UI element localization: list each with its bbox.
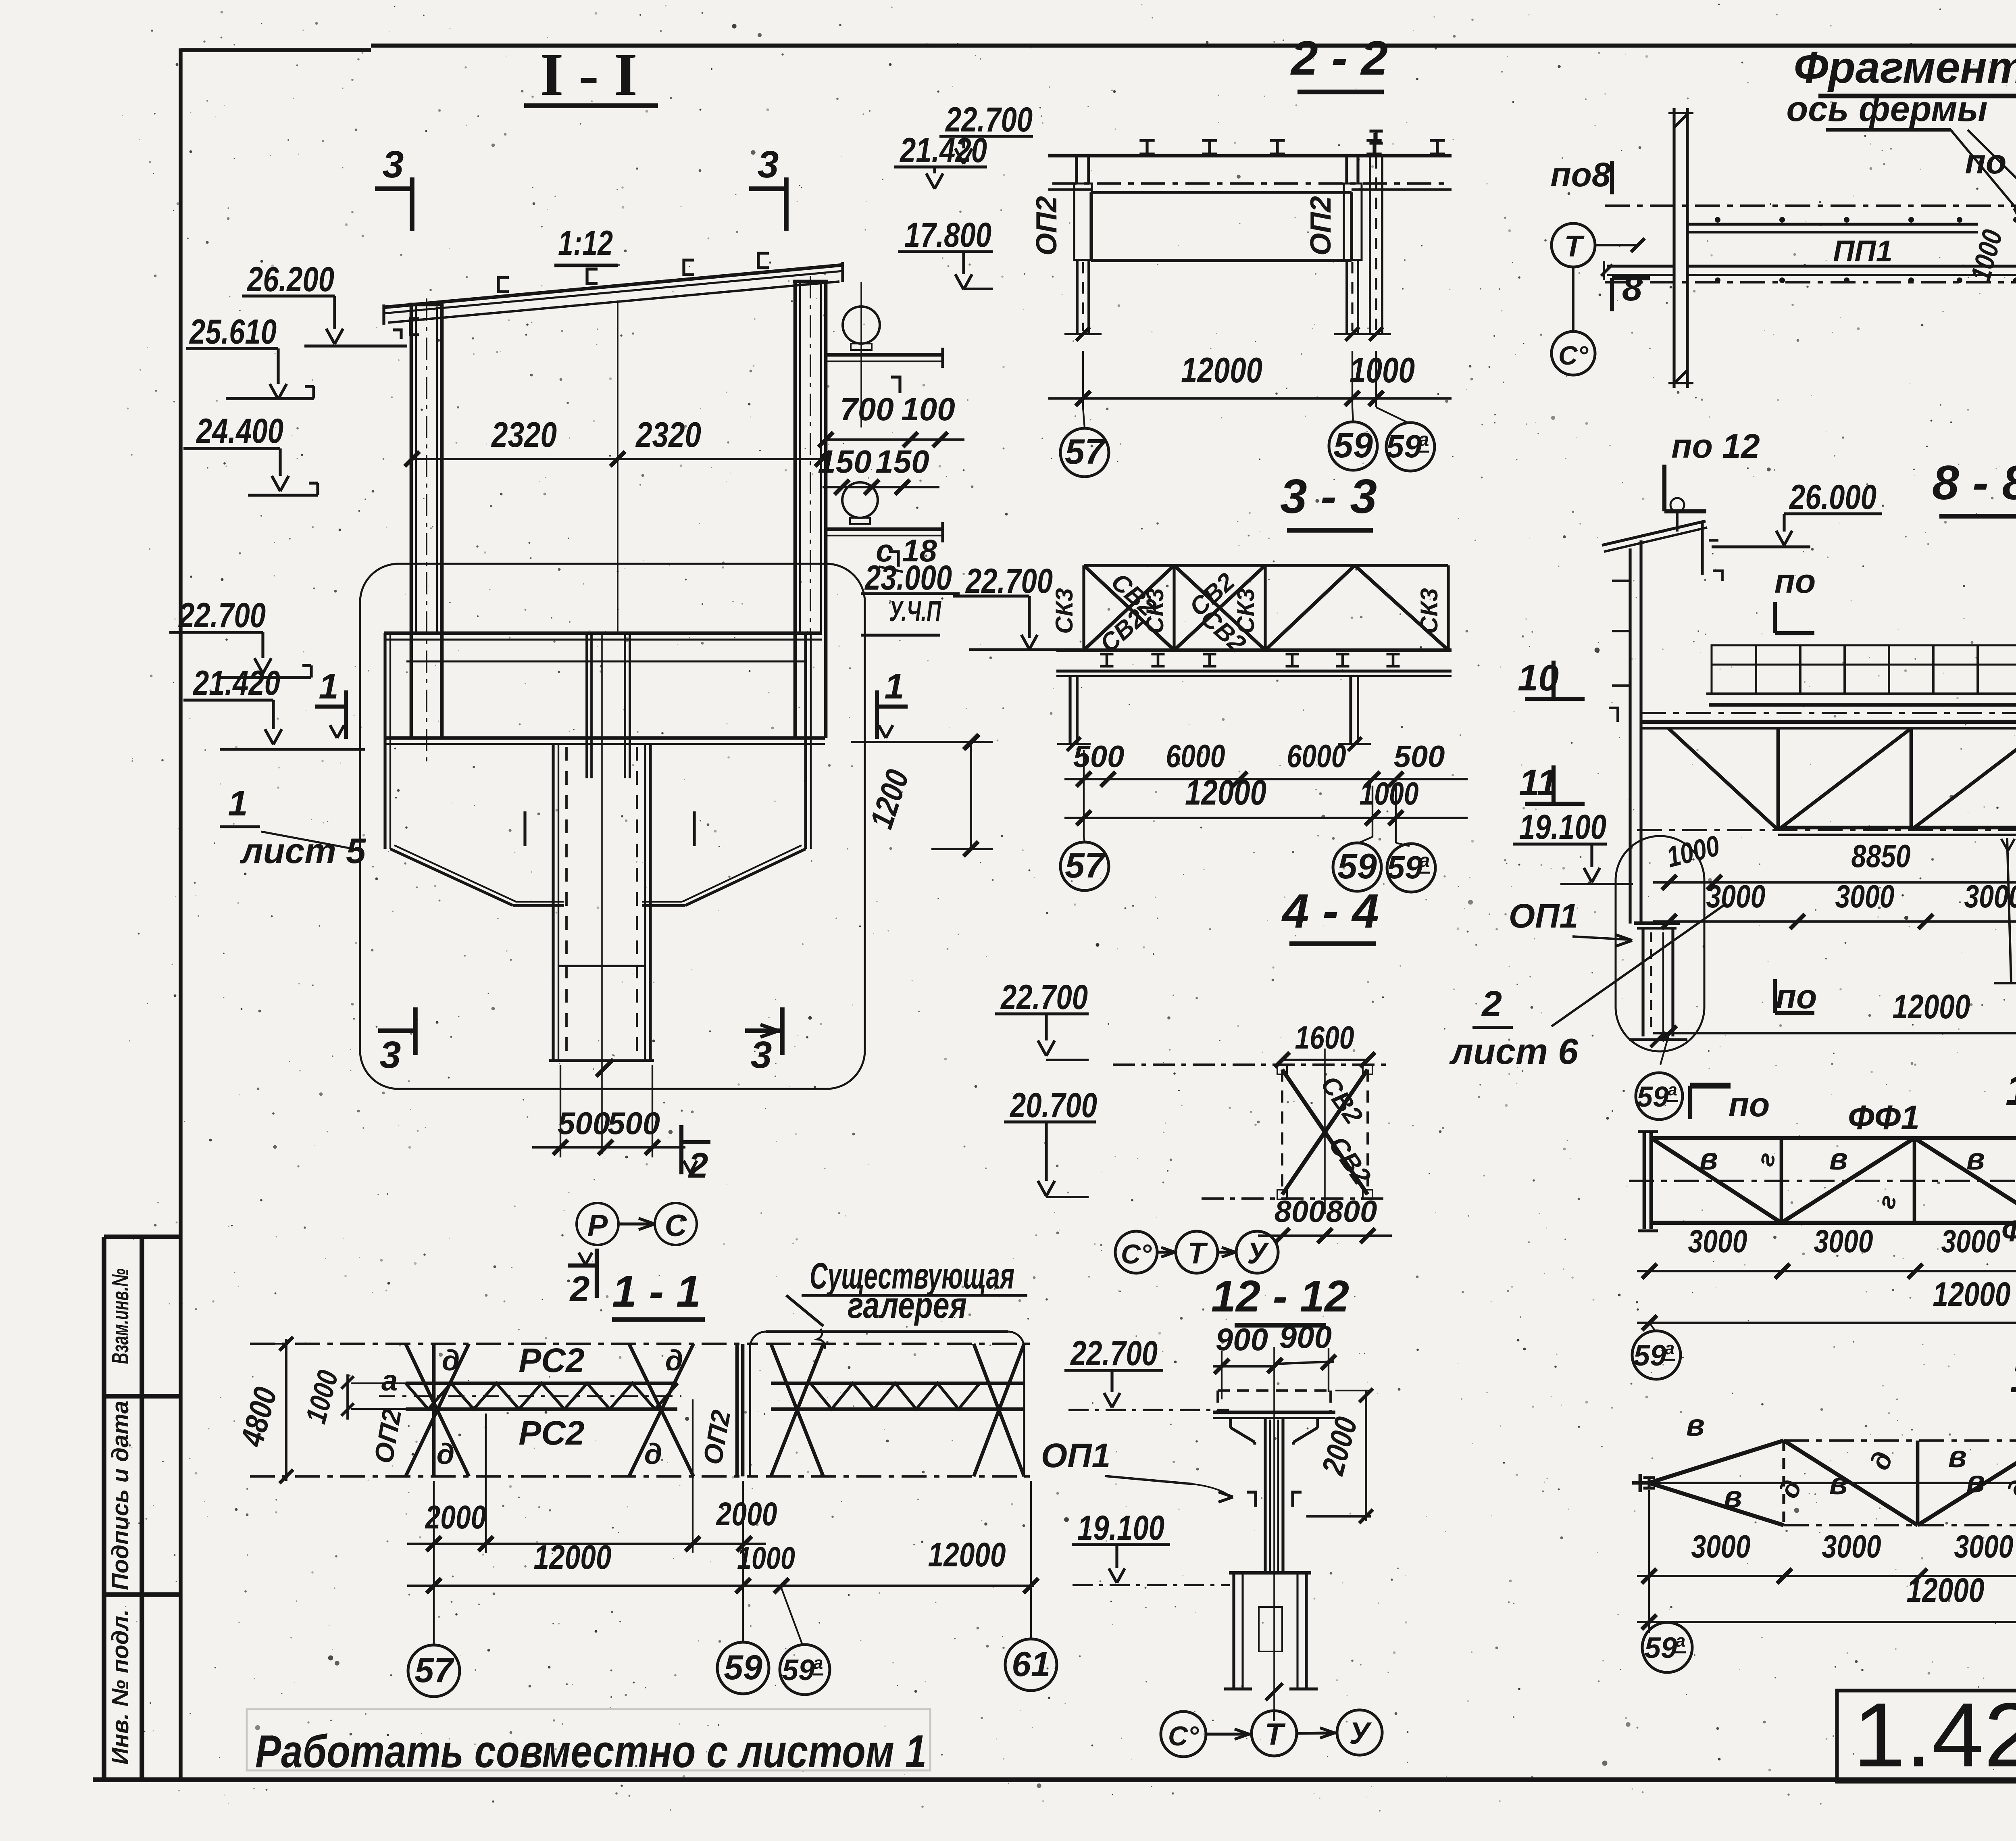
roller circle upper: [843, 306, 880, 344]
center axis of I-I: [617, 300, 619, 634]
svg-text:12000: 12000: [534, 1538, 612, 1576]
svg-text:1: 1: [228, 783, 248, 823]
svg-text:100: 100: [901, 391, 955, 427]
section mark 3 top-right: [749, 186, 786, 191]
svg-text:У.Ч.П: У.Ч.П: [889, 595, 942, 628]
grid circle C: [655, 1203, 697, 1245]
svg-text:2320: 2320: [491, 415, 557, 455]
platform middle posts: [585, 635, 588, 744]
svg-text:ОП1: ОП1: [1041, 1437, 1110, 1474]
mark 10 left: [1552, 661, 1556, 697]
svg-text:3: 3: [751, 1034, 772, 1076]
section mark 2 bottom-a: [681, 1140, 710, 1144]
svg-text:в: в: [1686, 1408, 1705, 1443]
roof beam of I-I: [384, 265, 843, 307]
fragment bolts on beams: [1715, 217, 2016, 283]
svg-text:11: 11: [1519, 762, 1558, 803]
svg-text:Т: Т: [1265, 1717, 1286, 1751]
svg-text:500: 500: [1073, 740, 1125, 774]
svg-text:10 - 10: 10 - 10: [2006, 1065, 2016, 1115]
svg-text:22.700: 22.700: [178, 596, 266, 635]
svg-text:3000: 3000: [1688, 1223, 1747, 1259]
svg-text:8850: 8850: [1851, 838, 1911, 874]
svg-text:в: в: [1948, 1440, 1967, 1474]
11-11 grid circles: [1648, 1490, 1650, 1633]
4-4 X brace: [1282, 1070, 1368, 1195]
svg-text:а: а: [813, 1653, 823, 1673]
faint erased box around note: [247, 1709, 930, 1770]
svg-text:12000: 12000: [928, 1536, 1006, 1574]
angle clip right upper: [891, 377, 900, 393]
svg-text:д: д: [665, 1345, 683, 1377]
section mark 1 left: [315, 705, 346, 709]
1-1 bottom dash-dot: [250, 1475, 758, 1478]
svg-text:12000: 12000: [1893, 988, 1970, 1026]
4-4 center axes: [1324, 1049, 1326, 1214]
3-3 beam I-marks: [1100, 653, 1114, 656]
2-2 grid circle 59a: [1376, 407, 1408, 423]
I-I left column: [410, 304, 413, 634]
svg-text:22.700: 22.700: [1000, 978, 1088, 1017]
existing structure rounded outline: [360, 564, 865, 1089]
12-12 cap plates: [1213, 1411, 1335, 1414]
svg-text:по 1: по 1: [1965, 143, 2016, 181]
8-8 mast column: [1629, 548, 1631, 924]
svg-text:лист 6: лист 6: [1449, 1032, 1579, 1072]
3-3 X braces CB2: [1084, 565, 1174, 650]
svg-text:Взам.инв.№: Взам.инв.№: [107, 1269, 133, 1364]
svg-text:59: 59: [1637, 1081, 1669, 1113]
svg-text:2: 2: [1481, 984, 1502, 1024]
section mark 1 right: [877, 705, 908, 709]
svg-text:ФФ1: ФФ1: [1848, 1099, 1920, 1136]
3-3 top chord: [1084, 564, 1448, 567]
svg-text:500: 500: [1394, 740, 1445, 774]
svg-text:а: а: [1665, 1339, 1674, 1358]
svg-text:С°: С°: [1168, 1721, 1199, 1751]
svg-text:1000: 1000: [1350, 350, 1415, 390]
svg-text:в: в: [1829, 1142, 1848, 1176]
sheet frame top border: [181, 48, 371, 52]
1-1 column OP2 right: [735, 1344, 739, 1476]
svg-text:Фрагмент N 1: Фрагмент N 1: [1794, 43, 2016, 92]
svg-text:3000: 3000: [1954, 1528, 2014, 1564]
svg-text:а: а: [1419, 850, 1430, 872]
svg-text:3: 3: [383, 143, 404, 186]
grid circle P: [577, 1203, 619, 1245]
svg-text:1 - 1: 1 - 1: [612, 1267, 701, 1316]
svg-text:2320: 2320: [635, 415, 701, 455]
svg-text:3000: 3000: [1941, 1223, 2001, 1259]
svg-text:1: 1: [885, 666, 904, 706]
12-12 top dashed cap: [1218, 1389, 1331, 1392]
svg-text:2: 2: [569, 1269, 590, 1309]
mark 11 left: [1552, 765, 1556, 802]
1-1 top dash-dot chord: [250, 1343, 758, 1345]
fragment grid circle T: [1552, 223, 1595, 267]
svg-text:26.000: 26.000: [1789, 478, 1876, 517]
column feet inside platform: [410, 634, 413, 738]
svg-text:12000: 12000: [1907, 1571, 1985, 1609]
svg-text:6000: 6000: [1287, 738, 1346, 774]
svg-text:59: 59: [1633, 1339, 1666, 1372]
title block box: [1837, 1691, 2016, 1782]
svg-text:д: д: [644, 1438, 662, 1470]
svg-text:д: д: [442, 1345, 460, 1377]
svg-text:в: в: [1724, 1480, 1742, 1514]
12-12 grid circles: [1161, 1712, 1206, 1757]
8-8 truss bottom chord: [1778, 826, 2016, 830]
svg-text:в: в: [1966, 1142, 1985, 1176]
svg-text:У: У: [1349, 1716, 1372, 1751]
svg-text:59: 59: [1644, 1632, 1677, 1664]
svg-text:23.000: 23.000: [864, 559, 952, 597]
svg-text:59: 59: [1337, 846, 1377, 886]
svg-text:Инв. № подл.: Инв. № подл.: [107, 1609, 133, 1765]
svg-text:21.420: 21.420: [192, 664, 280, 703]
2-2 grid circle 59: [1352, 407, 1353, 422]
3-3 right triangle braces: [1265, 565, 1355, 650]
fragment beam PP1 upper: [1687, 223, 1978, 225]
1-1 existing gallery truss: [766, 1330, 1008, 1333]
svg-text:17.800: 17.800: [904, 216, 991, 254]
svg-text:а: а: [381, 1365, 398, 1397]
platform floor beams: [384, 632, 822, 635]
svg-text:500: 500: [608, 1105, 660, 1141]
svg-text:3: 3: [758, 143, 779, 186]
svg-text:ОП2: ОП2: [1031, 196, 1063, 256]
svg-text:1:12: 1:12: [558, 224, 613, 263]
12-12 base box: [1229, 1571, 1311, 1575]
svg-text:22.700: 22.700: [1070, 1334, 1158, 1373]
8-8 mast roof: [1602, 521, 1706, 545]
svg-text:Т: Т: [1564, 229, 1585, 263]
angle clip right lower: [889, 552, 898, 567]
svg-text:РС2: РС2: [519, 1414, 584, 1452]
2-2 rail dash-dot line: [1052, 182, 1452, 185]
svg-text:59: 59: [782, 1654, 815, 1687]
2-2 grid circle 57: [1083, 407, 1085, 428]
svg-text:12 - 12: 12 - 12: [1211, 1272, 1349, 1321]
4-4 brace square dashed: [1113, 1063, 1387, 1066]
svg-text:С°: С°: [1558, 340, 1589, 370]
stamp cell lines: [104, 1234, 181, 1239]
stamp column outer border: [102, 1237, 106, 1780]
svg-text:57: 57: [1065, 432, 1106, 471]
svg-text:12000: 12000: [1181, 350, 1262, 390]
svg-text:РС2: РС2: [519, 1341, 584, 1379]
12-12 column shaft: [1264, 1418, 1266, 1573]
11-11 left tip mark: [1639, 1474, 1642, 1492]
2-2 right column 59a dashed: [1369, 156, 1371, 334]
small left roof clips: [393, 330, 401, 339]
svg-text:по8: по8: [1550, 156, 1611, 194]
svg-text:25.610: 25.610: [189, 313, 277, 351]
12-12 angle clips mid: [1247, 1492, 1256, 1507]
svg-text:3000: 3000: [1706, 878, 1766, 914]
svg-text:С°: С°: [1121, 1239, 1152, 1270]
sheet frame bottom border: [93, 1777, 2016, 1782]
2-2 left column OP2: [1074, 183, 1092, 260]
svg-text:2 - 2: 2 - 2: [1290, 31, 1388, 85]
svg-text:150: 150: [875, 444, 929, 480]
svg-text:галерея: галерея: [848, 1285, 967, 1326]
fragment left column plan: [1672, 108, 1675, 388]
arrow P to C: [619, 1222, 655, 1225]
11-11 chords dash-dot: [1784, 1439, 2016, 1442]
svg-text:по: по: [1776, 978, 1817, 1015]
svg-text:2: 2: [688, 1145, 708, 1185]
svg-text:по: по: [1729, 1086, 1770, 1124]
right bracket platform upper: [826, 353, 943, 357]
8-8 roof post: [1701, 522, 1704, 575]
svg-text:по 12: по 12: [1671, 427, 1760, 465]
section mark 2 bottom-b: [568, 1263, 597, 1268]
svg-text:1.420.2-28.1-8КМ: 1.420.2-28.1-8КМ: [1853, 1684, 2016, 1786]
2-2 right column 59: [1344, 183, 1362, 260]
svg-text:3000: 3000: [1835, 878, 1895, 914]
svg-text:57: 57: [414, 1651, 455, 1690]
svg-text:6000: 6000: [1166, 738, 1225, 774]
svg-text:С: С: [665, 1209, 687, 1243]
8-8 grid circle 59a: [1660, 1033, 1669, 1065]
svg-text:а: а: [1668, 1080, 1677, 1099]
svg-text:24.400: 24.400: [196, 412, 283, 450]
svg-text:4 - 4: 4 - 4: [1281, 884, 1379, 938]
svg-text:61: 61: [1012, 1645, 1050, 1684]
4-4 grid circles: [1115, 1231, 1157, 1273]
I-I right column: [793, 282, 797, 634]
svg-text:1: 1: [319, 666, 339, 706]
svg-text:лист 5: лист 5: [240, 831, 366, 871]
svg-text:19.100: 19.100: [1519, 808, 1606, 846]
1-1 zigzag web: [406, 1383, 678, 1409]
roof channel clips: [498, 277, 509, 292]
8-8 left pedestal in oval: [1616, 836, 1704, 1051]
svg-text:а: а: [1676, 1631, 1685, 1651]
svg-text:500: 500: [558, 1105, 610, 1141]
8-8 truss members: [1668, 728, 1778, 830]
roller circle lower: [842, 482, 878, 518]
svg-text:Т: Т: [1187, 1236, 1208, 1270]
svg-text:Работать совместно с лис: Работать совместно с листом 1: [255, 1726, 927, 1777]
svg-text:Подпись и дата: Подпись и дата: [107, 1401, 133, 1590]
8-8 deck band: [1641, 712, 2016, 714]
1-1 truss center dash: [379, 1395, 681, 1397]
svg-text:2000: 2000: [716, 1496, 777, 1532]
2-2 deck I-beams: [1139, 139, 1154, 142]
1-1 right X endpost: [629, 1344, 694, 1476]
svg-text:8: 8: [1622, 268, 1642, 309]
svg-text:21.420: 21.420: [899, 131, 987, 170]
platform walls: [383, 633, 386, 849]
10-10 web members: [1780, 1138, 1783, 1223]
3-3 bracing verticals: [1082, 565, 1085, 650]
svg-text:а: а: [1418, 429, 1429, 450]
3-3 grid circle 59a: [1396, 843, 1410, 846]
svg-text:по: по: [1774, 562, 1816, 600]
svg-text:ПП1: ПП1: [1833, 234, 1893, 268]
svg-text:СК3: СК3: [1232, 588, 1259, 634]
hopper slopes: [390, 849, 513, 905]
svg-text:3000: 3000: [1814, 1223, 1873, 1259]
svg-text:ОП1: ОП1: [1509, 897, 1578, 935]
svg-text:57: 57: [1065, 845, 1106, 885]
svg-text:59: 59: [724, 1648, 762, 1687]
fragment grid circle C0: [1552, 332, 1595, 375]
8-8 walkway grating: [1712, 645, 2016, 694]
svg-text:У: У: [1247, 1236, 1269, 1270]
right bracket platform lower: [826, 527, 943, 531]
svg-text:800: 800: [1326, 1195, 1377, 1229]
3-3 beam band: [1056, 648, 1452, 652]
svg-text:ФФ1: ФФ1: [2001, 1214, 2016, 1248]
svg-text:10: 10: [1518, 657, 1559, 698]
svg-text:3: 3: [380, 1034, 401, 1076]
svg-text:в: в: [1829, 1467, 1848, 1501]
svg-text:в: в: [1966, 1465, 1985, 1499]
section mark 3 top-left: [375, 186, 412, 191]
svg-text:12000: 12000: [1933, 1275, 2011, 1313]
1-1 grid circles: [408, 1645, 460, 1697]
10-10 truss chords: [1649, 1136, 2016, 1140]
svg-text:59: 59: [1333, 425, 1373, 465]
dim 500 500 below shaft: [560, 1065, 561, 1157]
3-3 column stubs: [1068, 676, 1071, 744]
svg-text:СК3: СК3: [1141, 588, 1168, 634]
svg-text:20.700: 20.700: [1009, 1086, 1097, 1125]
1-1 extension lines to circles: [433, 1481, 435, 1645]
svg-text:11 - 11: 11 - 11: [2010, 1352, 2016, 1402]
svg-text:СК3: СК3: [1416, 588, 1443, 634]
2-2 deck line: [1048, 154, 1452, 158]
svg-text:19.100: 19.100: [1077, 1509, 1164, 1547]
fragment left beam stub: [1607, 265, 1674, 267]
svg-text:3000: 3000: [1822, 1528, 1881, 1564]
svg-text:3 - 3: 3 - 3: [1280, 469, 1377, 523]
svg-text:12000: 12000: [1185, 772, 1266, 812]
svg-text:800: 800: [1275, 1195, 1326, 1229]
svg-text:900: 900: [1216, 1322, 1268, 1357]
svg-text:1000: 1000: [1360, 776, 1419, 811]
1-1 truss chords: [406, 1382, 677, 1385]
svg-text:59: 59: [1386, 428, 1422, 464]
11-11 web: [1649, 1441, 1784, 1483]
svg-text:I - I: I - I: [540, 41, 637, 108]
svg-text:Р: Р: [587, 1209, 608, 1243]
svg-text:150: 150: [818, 444, 871, 480]
3-3 grid circle 57: [1084, 837, 1085, 842]
svg-text:8 - 8: 8 - 8: [1932, 456, 2016, 510]
svg-text:59: 59: [1387, 849, 1423, 885]
central shaft: [552, 744, 554, 1061]
2-2 main girder: [1091, 191, 1352, 194]
svg-text:1000: 1000: [737, 1540, 795, 1576]
fragment beam PP1 lower: [1687, 265, 2016, 267]
fragment center dash-dot axes: [1605, 204, 2016, 207]
svg-text:д: д: [437, 1438, 455, 1470]
2-2 dim line: [1082, 351, 1084, 407]
hopper stiffener stubs: [523, 811, 526, 846]
3-3 grid circle 59: [1359, 837, 1372, 843]
svg-text:ось фермы: ось фермы: [1786, 89, 1987, 129]
svg-text:26.200: 26.200: [246, 260, 334, 299]
sheet frame left border: [179, 48, 182, 1779]
svg-text:3000: 3000: [1691, 1528, 1751, 1564]
svg-text:СК3: СК3: [1051, 588, 1078, 634]
1-1 existing gallery X ends: [771, 1344, 823, 1476]
10-10 grid circles: [1649, 1323, 1655, 1331]
svg-text:в: в: [1699, 1142, 1718, 1176]
svg-text:700: 700: [840, 391, 893, 427]
svg-text:900: 900: [1279, 1319, 1332, 1355]
1-1 left X endpost: [432, 1344, 436, 1476]
10-10 left end post: [1643, 1133, 1646, 1229]
svg-text:ОП2: ОП2: [1305, 196, 1337, 256]
